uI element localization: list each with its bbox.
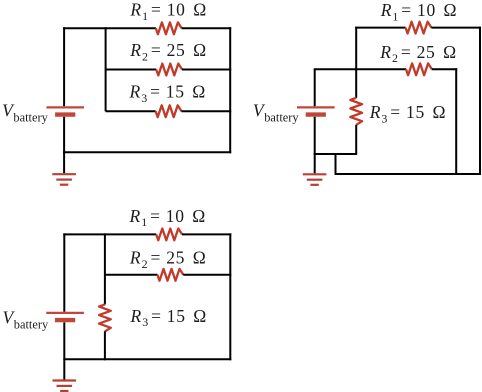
wire: TR top, R1 to right rail — [431, 27, 481, 29]
resistor R1 (top-right), 10 ohm — [406, 22, 432, 34]
battery V_battery (top-left) — [46, 106, 84, 108]
wire: BL R2 row right — [183, 274, 231, 276]
resistor R3 (bottom-left), 15 ohm, vertical — [99, 304, 111, 331]
ground (top-right circuit) — [303, 173, 327, 175]
wire: TL R3 row right — [181, 110, 231, 112]
resistor R3 (top-left), 15 ohm — [156, 105, 182, 117]
resistor R1 (top-left), 10 ohm — [156, 22, 182, 34]
wire: BL right rail — [229, 233, 231, 360]
svg-text:R2=25Ω: R2=25Ω — [379, 42, 456, 65]
wire: TR battery to ground — [314, 117, 316, 174]
svg-text:R1=10Ω: R1=10Ω — [380, 0, 457, 23]
wire: TL top, battery to R1 — [63, 27, 156, 29]
wire: BL bottom return — [63, 358, 231, 360]
wire: BL inner rail upper — [104, 233, 106, 304]
svg-text:R1=10Ω: R1=10Ω — [129, 206, 206, 229]
wire: BL R2 row left — [105, 274, 158, 276]
wire: TR R3 branch upper — [355, 27, 357, 98]
wire: TL R2 row left — [106, 69, 157, 71]
wire: TR jog battery-node to R3 bottom — [314, 153, 357, 155]
wire: TL R3 row left — [106, 110, 156, 112]
wire: TR R3 branch lower — [355, 125, 357, 155]
ground (top-left circuit) — [52, 173, 76, 175]
svg-text:R3=15Ω: R3=15Ω — [369, 102, 446, 125]
wire: BL battery to ground/bottom — [63, 322, 65, 379]
resistor R1 (bottom-left), 10 ohm — [156, 229, 182, 241]
wire: TR left rail to battery — [314, 69, 316, 106]
wire: TR outer right rail — [479, 27, 481, 175]
wire: TR jog drop to bottom return — [335, 153, 337, 175]
svg-text:R3=15Ω: R3=15Ω — [129, 81, 206, 104]
wire: TL battery to ground/bottom — [63, 117, 65, 174]
wire: TL top, R1 to right rail — [182, 27, 232, 29]
wire: BL top, R1 to right rail — [182, 233, 231, 235]
wire: TL bottom return — [63, 151, 231, 153]
wire: TR inner right rail — [455, 68, 457, 175]
resistor R2 (top-right), 25 ohm — [406, 63, 432, 75]
svg-text:R2=25Ω: R2=25Ω — [129, 247, 206, 270]
wire: TL R2 row right — [182, 69, 231, 71]
wire: TR top, node to R1 — [355, 27, 405, 29]
resistor R2 (bottom-left), 25 ohm — [157, 269, 183, 281]
wire: TL right rail — [229, 27, 231, 153]
wire: BL left rail to battery — [63, 233, 65, 311]
battery V_battery (top-right) — [297, 106, 335, 108]
ground (bottom-left circuit) — [53, 379, 77, 381]
wire: TR R2 row left — [314, 68, 406, 70]
wire: TL left rail to battery — [63, 27, 65, 106]
svg-text:R1=10Ω: R1=10Ω — [129, 0, 206, 23]
resistor R3 (top-right), 15 ohm, vertical — [350, 98, 362, 125]
svg-text:R2=25Ω: R2=25Ω — [129, 40, 206, 63]
wire: TL inner vertical rail — [105, 27, 107, 111]
wire: TR bottom return — [335, 173, 482, 175]
resistor R2 (top-left), 25 ohm — [156, 64, 182, 76]
wire: TR R2 row right — [432, 68, 457, 70]
svg-text:R3=15Ω: R3=15Ω — [130, 306, 207, 329]
battery V_battery (bottom-left) — [46, 312, 84, 314]
wire: BL top, battery to R1 — [63, 233, 156, 235]
wire: BL inner rail lower — [104, 331, 106, 360]
